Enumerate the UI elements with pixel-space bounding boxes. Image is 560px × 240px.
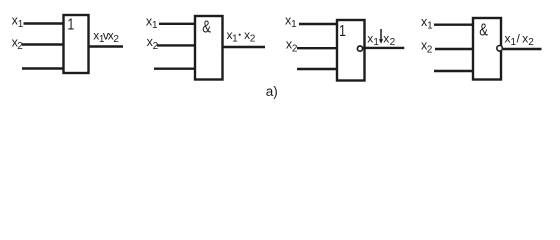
svg-text:2: 2 <box>292 44 298 55</box>
svg-text:1: 1 <box>152 20 158 31</box>
svg-text:1: 1 <box>373 37 379 48</box>
svg-text:2: 2 <box>390 37 396 48</box>
svg-text:2: 2 <box>113 34 119 45</box>
svg-text:1: 1 <box>291 19 297 30</box>
svg-text:&: & <box>202 18 211 38</box>
svg-text:2: 2 <box>250 34 256 45</box>
svg-text:1: 1 <box>232 34 238 45</box>
svg-text:1: 1 <box>339 23 346 41</box>
svg-text:x: x <box>367 31 373 45</box>
svg-text:1: 1 <box>99 34 105 45</box>
svg-text:1: 1 <box>427 21 433 32</box>
svg-text:2: 2 <box>153 41 159 52</box>
svg-text:2: 2 <box>427 44 433 55</box>
svg-text:1: 1 <box>67 16 74 34</box>
svg-text:a): a) <box>266 84 278 99</box>
svg-text:x: x <box>383 31 389 45</box>
svg-text:2: 2 <box>17 41 23 52</box>
svg-text:1: 1 <box>18 19 24 30</box>
svg-text:&: & <box>479 21 488 41</box>
svg-text:1: 1 <box>511 37 517 48</box>
svg-text:2: 2 <box>528 37 534 48</box>
